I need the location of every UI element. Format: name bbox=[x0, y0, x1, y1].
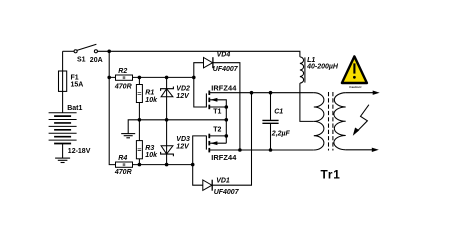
svg-text:12-18V: 12-18V bbox=[68, 148, 91, 155]
svg-text:T2: T2 bbox=[213, 127, 221, 134]
svg-text:20A: 20A bbox=[90, 57, 103, 64]
svg-text:R3: R3 bbox=[145, 145, 154, 152]
svg-text:470R: 470R bbox=[114, 83, 132, 90]
svg-text:VD2: VD2 bbox=[176, 86, 190, 93]
svg-text:R4: R4 bbox=[118, 155, 127, 162]
svg-text:Tr1: Tr1 bbox=[321, 168, 341, 182]
svg-text:R1: R1 bbox=[145, 90, 154, 97]
svg-text:Bat1: Bat1 bbox=[67, 105, 82, 112]
svg-text:VD4: VD4 bbox=[217, 52, 231, 59]
svg-text:UF4007: UF4007 bbox=[213, 66, 239, 73]
svg-text:15A: 15A bbox=[71, 81, 84, 88]
svg-text:R2: R2 bbox=[118, 68, 127, 75]
svg-text:VD1: VD1 bbox=[216, 178, 230, 185]
svg-text:S1: S1 bbox=[77, 56, 86, 63]
svg-text:Caution!: Caution! bbox=[349, 85, 361, 89]
svg-text:10k: 10k bbox=[145, 152, 158, 159]
svg-text:470R: 470R bbox=[114, 169, 132, 176]
svg-text:12V: 12V bbox=[176, 93, 190, 100]
svg-text:10k: 10k bbox=[145, 97, 158, 104]
svg-text:12V: 12V bbox=[176, 143, 190, 150]
svg-text:C1: C1 bbox=[274, 108, 283, 115]
svg-text:T1: T1 bbox=[213, 108, 221, 115]
svg-text:VD3: VD3 bbox=[176, 136, 190, 143]
svg-text:UF4007: UF4007 bbox=[214, 189, 240, 196]
svg-text:IRFZ44: IRFZ44 bbox=[211, 153, 237, 162]
svg-text:40-200µH: 40-200µH bbox=[306, 64, 339, 71]
svg-text:IRFZ44: IRFZ44 bbox=[211, 84, 237, 93]
svg-text:2,2µF: 2,2µF bbox=[271, 130, 291, 137]
